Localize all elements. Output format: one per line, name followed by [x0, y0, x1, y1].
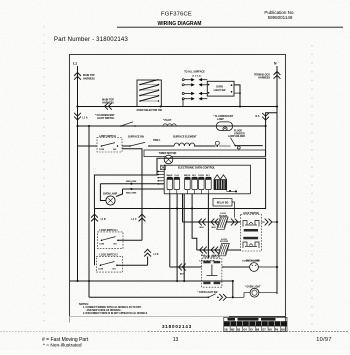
wire bus B — [78, 125, 266, 127]
oven lamp bulb — [106, 196, 115, 205]
svg-text:HARNESS: HARNESS — [258, 77, 270, 80]
svg-text:2. DISCONNECT WIRE IS IN NOT: 2. DISCONNECT WIRE IS IN NOT APPEAR IN A… — [83, 312, 148, 315]
transformer W coil — [214, 175, 227, 180]
svg-text:5995001149: 5995001149 — [268, 15, 293, 20]
relay board box — [213, 199, 232, 207]
svg-text:FGF376CE: FGF376CE — [161, 12, 192, 18]
scan artifact dotted columns — [43, 26, 45, 328]
connector L1 A chevron — [77, 107, 79, 282]
wire N branch to bus B — [266, 113, 277, 157]
svg-text:P9: P9 — [275, 327, 279, 331]
svg-text:# = Fast Moving Part: # = Fast Moving Part — [42, 337, 89, 343]
oven selector switch block — [137, 80, 161, 107]
svg-text:L1 C: L1 C — [132, 219, 137, 221]
lamp switch dashed box — [97, 138, 122, 153]
connector chevron x142 — [139, 214, 146, 217]
wire bottom bus — [89, 296, 208, 298]
svg-text:O4: O4 — [243, 327, 247, 331]
switch on bus B — [120, 125, 122, 127]
header rule — [117, 26, 343, 28]
svg-text:B6: B6 — [256, 327, 260, 331]
table row 3 dense text — [224, 325, 287, 327]
electronic oven control box — [164, 165, 250, 194]
svg-text:B3: B3 — [237, 327, 241, 331]
wire x89 drop — [88, 126, 90, 297]
timer box — [144, 150, 266, 157]
svg-text:BLK: BLK — [212, 227, 217, 229]
svg-text:1. CONNECT WIRING WITH ALL MO: 1. CONNECT WIRING WITH ALL MODELS AS TO … — [83, 306, 142, 309]
svg-text:OVEN SELECTOR SW: OVEN SELECTOR SW — [136, 109, 162, 112]
table header row dark blocks — [228, 318, 236, 321]
wire light switch second stub — [234, 92, 240, 94]
svg-text:STARTER: STARTER — [234, 132, 245, 135]
transformer hatched block — [214, 180, 227, 190]
wire EOC drop 1 — [169, 194, 171, 267]
svg-text:* OVEN LIGHT SW: * OVEN LIGHT SW — [198, 292, 219, 294]
svg-text:FLUOR: FLUOR — [234, 131, 242, 133]
door lock switch dashed box — [241, 215, 262, 252]
svg-text:V8: V8 — [269, 327, 273, 331]
svg-text:N A: N A — [255, 115, 259, 118]
oven light circle — [250, 288, 259, 297]
EOC corner terminal — [161, 165, 166, 169]
svg-text:DOOR SWITCH: DOOR SWITCH — [203, 257, 220, 259]
wire drop x142 — [122, 149, 142, 241]
connector chevron on bus A — [105, 103, 108, 110]
svg-text:COM: COM — [99, 149, 104, 151]
wire oven lamp feed — [222, 266, 250, 268]
svg-text:RED-ORN: RED-ORN — [126, 193, 137, 195]
svg-text:LIGHT SW: LIGHT SW — [214, 89, 226, 92]
wire EOC drop 3 — [183, 194, 185, 281]
svg-text:* PILOT: * PILOT — [163, 120, 172, 122]
svg-text:LAMP SWITCH: LAMP SWITCH — [99, 135, 116, 138]
svg-text:L1 A: L1 A — [83, 117, 88, 120]
svg-text:COM: COM — [98, 268, 103, 270]
wire riser stub — [147, 257, 149, 266]
svg-text:HARNESS: HARNESS — [83, 77, 95, 80]
wire oven lamp leads — [100, 183, 164, 185]
svg-text:* = Non-Illustrated: * = Non-Illustrated — [43, 343, 82, 349]
svg-text:( 1 2 3 4 ): ( 1 2 3 4 ) — [192, 74, 202, 77]
svg-text:Y5: Y5 — [250, 327, 254, 331]
svg-text:LAMP: LAMP — [217, 118, 224, 121]
svg-text:SURFACE SW: SURFACE SW — [128, 136, 145, 139]
EOC left stubs — [158, 171, 165, 173]
wire to door switch — [170, 266, 202, 268]
oven light switch box — [207, 81, 234, 96]
svg-text:Part Number - 318002143: Part Number - 318002143 — [54, 37, 128, 43]
wire bus L1 lower — [70, 280, 233, 282]
svg-text:LOCK SWITCH 2: LOCK SWITCH 2 — [100, 255, 119, 257]
connector L1 terminal block chevron — [74, 73, 81, 76]
connector chevron L1 D — [144, 249, 151, 252]
svg-text:10/97: 10/97 — [316, 337, 332, 343]
svg-text:SURFACE ELEMENT: SURFACE ELEMENT — [173, 136, 197, 139]
wire EOC drop 5 (row2 feed) — [192, 194, 197, 250]
wire LS1 out — [118, 239, 142, 241]
svg-text:W2: W2 — [231, 327, 235, 331]
svg-text:LIGHT SWITCH: LIGHT SWITCH — [97, 117, 115, 120]
wire corner down — [232, 281, 234, 297]
oven lamp circle — [250, 263, 259, 272]
wire lock row 1 — [183, 221, 241, 223]
svg-text:MOTOR: MOTOR — [220, 241, 229, 243]
svg-text:OVEN LAMP: OVEN LAMP — [246, 260, 260, 263]
wire out of lamp switch — [122, 145, 130, 147]
svg-text:OVEN LAMP: OVEN LAMP — [103, 192, 118, 195]
svg-text:13: 13 — [173, 337, 179, 343]
wire EOC drop 2 — [176, 194, 178, 281]
svg-text:HARNESS: HARNESS — [102, 102, 114, 105]
svg-text:L1 D: L1 D — [153, 254, 158, 256]
lock switch 1 dashed box — [98, 232, 124, 249]
svg-text:LOCK SWITCH 1: LOCK SWITCH 1 — [100, 230, 119, 232]
footer color code table — [224, 317, 287, 331]
wire lock row 2 — [197, 249, 241, 251]
connector chevron L1 B — [91, 214, 98, 217]
svg-text:BLK: BLK — [180, 273, 185, 275]
connector right of lock box — [262, 221, 265, 223]
starter switch blade — [234, 145, 236, 147]
svg-text:TIME 1: TIME 1 — [153, 140, 161, 142]
wire EOC drop 6 (door switch feed) — [207, 194, 209, 258]
connector plug arrow grid — [182, 99, 184, 107]
connector N terminal block chevron — [274, 72, 281, 75]
svg-text:BU: BU — [281, 327, 285, 331]
svg-text:NO: NO — [113, 149, 117, 151]
bottom fold dotted rule — [0, 331, 148, 333]
svg-text:NOTES:: NOTES: — [79, 302, 89, 306]
wire EOC drop 4 (row1 feed) — [182, 194, 184, 222]
wire row C — [78, 145, 98, 147]
wire from light switch to bus A — [234, 85, 240, 107]
svg-text:L1: L1 — [73, 62, 77, 66]
svg-text:WIRING DIAGRAM: WIRING DIAGRAM — [158, 21, 202, 27]
svg-text:ELECTRONIC OVEN CONTROL: ELECTRONIC OVEN CONTROL — [178, 166, 216, 169]
wire L1 drop to bus A — [77, 66, 79, 107]
timer motor circle — [164, 155, 173, 164]
svg-text:BLK: BLK — [200, 227, 205, 229]
svg-text:318002143: 318002143 — [162, 324, 192, 329]
svg-text:G7: G7 — [262, 327, 266, 331]
svg-text:TO ALL SURFACE: TO ALL SURFACE — [184, 71, 205, 74]
oven enclosure outline — [94, 158, 265, 208]
svg-text:COM: COM — [99, 244, 104, 246]
svg-text:Publication No.: Publication No. — [264, 10, 294, 15]
door switch dashed box — [202, 258, 222, 287]
svg-text:L1 B: L1 B — [101, 219, 106, 221]
wire N vertical — [276, 66, 278, 294]
svg-text:NO: NO — [113, 268, 117, 270]
wire lamp row to right — [235, 145, 263, 147]
connector N A chevron — [262, 113, 269, 116]
svg-text:NO: NO — [114, 244, 118, 246]
svg-text:RELAY BD: RELAY BD — [217, 201, 229, 204]
svg-text:AND NEW GUIDE AS ORIGINAL.: AND NEW GUIDE AS ORIGINAL. — [87, 309, 122, 312]
svg-text:1B: 1B — [224, 327, 227, 331]
svg-text:RED-ORN: RED-ORN — [126, 181, 137, 183]
wire drop x94.5 — [94, 209, 96, 266]
svg-text:TIMER MOTOR: TIMER MOTOR — [159, 152, 177, 155]
svg-text:* OVEN LIGHT: * OVEN LIGHT — [245, 286, 261, 288]
wire LS2 out — [117, 264, 148, 266]
receptacle circles — [215, 141, 219, 145]
svg-text:LOCK SWITCH: LOCK SWITCH — [243, 213, 260, 215]
svg-text:LAMP HOLDER: LAMP HOLDER — [228, 135, 245, 138]
svg-text:BAKE: BAKE — [167, 174, 174, 177]
lock switch 2 dashed box — [96, 256, 122, 272]
table row 2 solid dark — [224, 321, 287, 326]
wire bus A (L1 top bus) — [78, 106, 278, 108]
diagram border frame — [70, 55, 286, 317]
